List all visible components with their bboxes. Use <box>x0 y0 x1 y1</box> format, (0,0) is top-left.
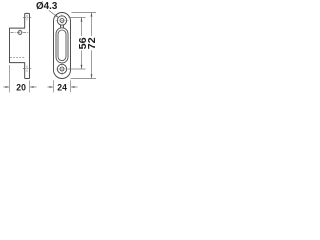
dimension 20 left arrow <box>3 86 9 88</box>
extension line top hole (56) <box>69 17 86 19</box>
svg-text:20: 20 <box>16 83 26 94</box>
front view bottom hole center cross <box>56 68 69 70</box>
front view bottom screw hole inner <box>60 67 64 71</box>
side view top hole center cross <box>23 17 31 19</box>
side view body outline (left view) <box>10 13 30 78</box>
side view hidden line bottom <box>10 57 25 59</box>
svg-text:24: 24 <box>57 83 67 94</box>
keyhole slot inner edge <box>58 30 66 61</box>
front view plate outline (obround) <box>54 13 71 79</box>
front view bottom screw hole outer <box>57 64 66 73</box>
extension line 24 right <box>70 80 72 92</box>
side view bottom hole center cross <box>23 68 31 70</box>
side view center line through dowel <box>11 32 30 34</box>
dimension 20 right arrow <box>30 86 36 88</box>
neck between top hole and slot <box>60 25 62 29</box>
front view top screw hole inner <box>60 19 64 23</box>
svg-text:Ø4.3: Ø4.3 <box>36 1 58 12</box>
extension line plate bottom (72) <box>71 78 97 80</box>
svg-text:72: 72 <box>87 37 98 49</box>
leader line from diameter label <box>49 10 58 17</box>
leader arrowhead <box>55 15 58 18</box>
dimension line 56 <box>81 18 83 36</box>
extension line 20 right <box>29 80 31 92</box>
extension line 24 left <box>53 80 55 92</box>
dimension 24 left arrow <box>47 86 52 88</box>
side view dowel vertical center dash <box>19 30 21 36</box>
side view dowel circle <box>18 31 22 35</box>
front view top hole center cross <box>56 20 69 22</box>
extension line plate top (72) <box>72 12 97 14</box>
keyhole slot outer rim <box>56 28 68 63</box>
extension line 20 left <box>9 65 11 92</box>
dimension line 72 <box>91 13 93 36</box>
dimension 24 right arrow <box>71 86 77 88</box>
front view top screw hole outer <box>57 16 66 25</box>
extension line bottom hole (56) <box>69 68 86 70</box>
